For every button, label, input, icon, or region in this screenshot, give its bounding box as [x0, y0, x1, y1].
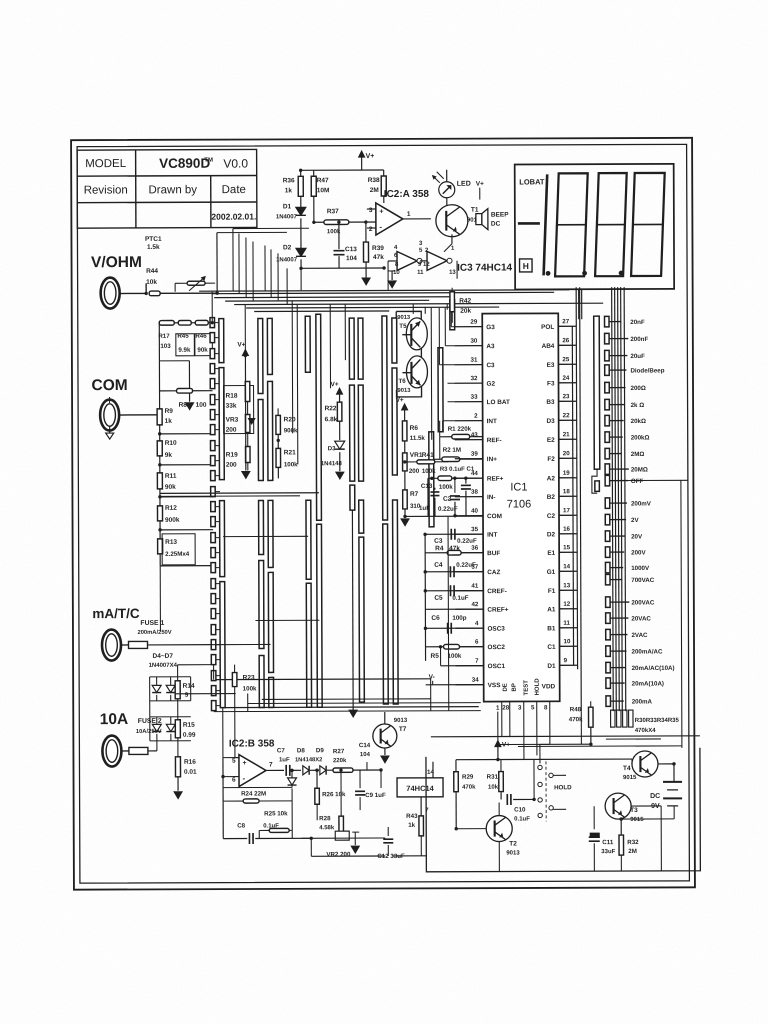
- svg-text:E2: E2: [547, 437, 555, 444]
- svg-text:33uF: 33uF: [601, 849, 615, 855]
- svg-text:36: 36: [471, 545, 478, 552]
- svg-text:BUF: BUF: [487, 550, 500, 557]
- svg-text:R43: R43: [406, 813, 418, 820]
- svg-text:R16: R16: [184, 759, 196, 766]
- svg-text:+: +: [242, 760, 246, 767]
- svg-text:0.99: 0.99: [183, 732, 196, 739]
- svg-text:200mV: 200mV: [631, 500, 652, 507]
- svg-text:Revision: Revision: [84, 184, 128, 196]
- svg-text:470kX4: 470kX4: [635, 728, 656, 734]
- svg-text:HOLD: HOLD: [554, 784, 572, 791]
- svg-text:21: 21: [563, 431, 570, 438]
- svg-text:R19: R19: [226, 452, 238, 459]
- svg-text:+: +: [379, 208, 383, 215]
- svg-text:Drawn by: Drawn by: [148, 184, 197, 196]
- svg-text:100k: 100k: [448, 653, 462, 660]
- svg-text:33k: 33k: [226, 403, 237, 410]
- svg-text:R17: R17: [158, 333, 170, 340]
- svg-text:VSS: VSS: [488, 682, 502, 689]
- svg-text:31: 31: [471, 357, 478, 364]
- svg-text:100k: 100k: [439, 484, 453, 491]
- svg-text:C2: C2: [547, 513, 556, 520]
- svg-text:R21: R21: [284, 449, 296, 456]
- svg-text:32: 32: [471, 375, 478, 382]
- svg-text:24: 24: [562, 375, 569, 382]
- svg-text:mA/T/C: mA/T/C: [92, 606, 140, 621]
- svg-text:200kΩ: 200kΩ: [631, 434, 650, 441]
- svg-text:T1: T1: [471, 207, 479, 214]
- svg-text:35: 35: [471, 526, 478, 533]
- svg-text:20VAC: 20VAC: [631, 615, 651, 622]
- svg-text:34: 34: [472, 677, 479, 684]
- svg-text:1uF: 1uF: [419, 505, 430, 512]
- svg-text:23: 23: [563, 393, 570, 400]
- svg-text:0.01: 0.01: [184, 769, 197, 776]
- svg-text:200Ω: 200Ω: [631, 385, 646, 392]
- svg-text:900k: 900k: [284, 427, 298, 434]
- svg-text:D4~D7: D4~D7: [153, 653, 174, 660]
- svg-text:3: 3: [369, 207, 373, 214]
- svg-text:R26 10k: R26 10k: [322, 791, 346, 798]
- svg-text:0.1uF: 0.1uF: [452, 595, 468, 602]
- svg-text:AB4: AB4: [542, 343, 555, 350]
- svg-text:V+: V+: [396, 397, 404, 404]
- svg-text:4: 4: [475, 620, 479, 627]
- svg-text:D2: D2: [283, 244, 292, 251]
- svg-text:IN-: IN-: [487, 494, 496, 501]
- svg-text:R14: R14: [183, 683, 195, 690]
- svg-text:R4: R4: [435, 545, 444, 552]
- svg-text:R15: R15: [183, 722, 195, 729]
- svg-text:5: 5: [232, 758, 236, 765]
- svg-text:9.9k: 9.9k: [178, 347, 191, 354]
- svg-text:R36: R36: [283, 177, 295, 184]
- svg-text:13: 13: [449, 270, 456, 276]
- svg-text:C3: C3: [486, 362, 495, 369]
- svg-text:IC2:A 358: IC2:A 358: [384, 189, 430, 200]
- svg-text:V0.0: V0.0: [223, 157, 248, 171]
- svg-text:22: 22: [563, 412, 570, 419]
- svg-text:1k: 1k: [408, 822, 415, 829]
- svg-text:R42: R42: [459, 298, 471, 305]
- svg-text:COM: COM: [91, 377, 127, 394]
- svg-text:D9: D9: [316, 747, 324, 754]
- svg-text:C9 1uF: C9 1uF: [365, 792, 386, 799]
- svg-text:VDD: VDD: [542, 683, 556, 690]
- svg-text:PTC1: PTC1: [145, 236, 162, 243]
- svg-text:REF-: REF-: [487, 437, 502, 444]
- svg-text:D3: D3: [328, 446, 336, 452]
- svg-text:C7: C7: [277, 747, 285, 754]
- svg-text:R38: R38: [368, 177, 380, 184]
- svg-text:R44: R44: [146, 268, 158, 275]
- svg-text:R37: R37: [327, 208, 339, 215]
- svg-text:103: 103: [160, 343, 171, 350]
- svg-text:REF+: REF+: [487, 476, 504, 483]
- svg-text:C2: C2: [443, 496, 452, 503]
- svg-text:D1: D1: [547, 663, 556, 670]
- svg-text:DC: DC: [650, 793, 660, 800]
- svg-text:H: H: [523, 261, 529, 271]
- svg-text:F1: F1: [548, 588, 556, 595]
- svg-text:DC: DC: [491, 221, 501, 228]
- svg-text:B2: B2: [547, 494, 556, 501]
- svg-text:9013: 9013: [394, 718, 408, 724]
- svg-text:V/OHM: V/OHM: [91, 254, 142, 271]
- svg-text:7: 7: [269, 761, 273, 768]
- svg-text:19: 19: [563, 470, 570, 477]
- svg-text:25: 25: [562, 356, 569, 363]
- svg-text:900k: 900k: [165, 517, 180, 524]
- svg-text:R48: R48: [570, 706, 582, 713]
- svg-text:G2: G2: [486, 381, 495, 388]
- svg-text:90k: 90k: [165, 484, 176, 491]
- svg-text:100k: 100k: [422, 468, 436, 475]
- svg-text:8: 8: [544, 704, 548, 711]
- svg-text:6.8k: 6.8k: [325, 416, 338, 423]
- svg-text:1N4007: 1N4007: [276, 257, 298, 263]
- svg-text:VR2 200: VR2 200: [326, 851, 351, 858]
- svg-text:7: 7: [475, 658, 479, 665]
- svg-text:38: 38: [471, 489, 478, 496]
- svg-text:C5: C5: [434, 595, 443, 602]
- svg-text:R11: R11: [165, 473, 177, 480]
- svg-text:R20: R20: [284, 416, 296, 423]
- svg-text:COM: COM: [487, 513, 502, 520]
- svg-text:47k: 47k: [373, 254, 384, 261]
- svg-text:T3: T3: [630, 807, 638, 814]
- svg-text:20mA/AC(10A): 20mA/AC(10A): [632, 665, 675, 672]
- svg-text:200V: 200V: [631, 549, 646, 556]
- svg-text:T4: T4: [623, 765, 631, 772]
- svg-text:11: 11: [417, 270, 424, 276]
- svg-text:220k: 220k: [333, 758, 347, 764]
- svg-text:30: 30: [470, 338, 477, 345]
- svg-text:R25 10k: R25 10k: [264, 810, 288, 817]
- svg-text:A1: A1: [547, 606, 556, 613]
- svg-text:9013: 9013: [397, 315, 411, 321]
- svg-text:2002.02.01.: 2002.02.01.: [211, 211, 256, 221]
- svg-text:12: 12: [423, 262, 430, 268]
- svg-text:1000V: 1000V: [631, 565, 650, 572]
- svg-text:39: 39: [471, 451, 478, 458]
- svg-text:1: 1: [496, 705, 500, 712]
- svg-text:Date: Date: [222, 184, 246, 196]
- svg-text:0.22uF: 0.22uF: [457, 538, 477, 545]
- svg-text:104: 104: [360, 752, 371, 758]
- svg-text:Diode/Beep: Diode/Beep: [630, 367, 664, 374]
- svg-text:15: 15: [563, 544, 570, 551]
- svg-text:LED: LED: [457, 181, 471, 188]
- svg-text:0.1uF: 0.1uF: [514, 816, 530, 822]
- svg-text:9k: 9k: [165, 452, 173, 459]
- svg-text:200mA/AC: 200mA/AC: [632, 648, 664, 655]
- svg-text:2k Ω: 2k Ω: [631, 402, 645, 409]
- svg-text:4.58k: 4.58k: [319, 825, 335, 831]
- svg-text:R31: R31: [487, 774, 499, 781]
- svg-text:R8: R8: [179, 402, 188, 409]
- svg-text:LO BAT: LO BAT: [487, 399, 510, 406]
- svg-text:47k: 47k: [449, 545, 460, 552]
- svg-text:E3: E3: [547, 362, 555, 369]
- svg-text:R41: R41: [422, 452, 434, 459]
- svg-text:11.5k: 11.5k: [410, 435, 426, 442]
- svg-text:42: 42: [471, 601, 478, 608]
- svg-text:41: 41: [471, 583, 478, 590]
- svg-text:1: 1: [407, 211, 411, 218]
- svg-text:TEST: TEST: [524, 680, 530, 696]
- svg-text:2M: 2M: [370, 187, 379, 194]
- svg-text:TM: TM: [204, 158, 213, 164]
- svg-text:R1 220k: R1 220k: [448, 426, 472, 433]
- svg-text:MODEL: MODEL: [85, 158, 127, 170]
- svg-text:10k: 10k: [488, 785, 499, 791]
- svg-text:-: -: [379, 223, 382, 232]
- svg-text:20: 20: [563, 450, 570, 457]
- svg-text:9013: 9013: [506, 850, 520, 856]
- svg-text:HOLD: HOLD: [535, 678, 541, 696]
- svg-text:200VAC: 200VAC: [631, 599, 654, 606]
- svg-text:R32: R32: [627, 839, 639, 846]
- svg-text:A2: A2: [547, 475, 556, 482]
- svg-text:33: 33: [471, 394, 478, 401]
- svg-text:1N4007: 1N4007: [276, 214, 298, 220]
- svg-text:INT: INT: [487, 418, 497, 425]
- svg-text:C3: C3: [434, 538, 443, 545]
- svg-text:1.5k: 1.5k: [147, 244, 160, 251]
- svg-text:R47: R47: [317, 177, 329, 184]
- svg-text:R24 22M: R24 22M: [241, 790, 266, 797]
- svg-text:29: 29: [470, 319, 477, 326]
- svg-text:2VAC: 2VAC: [631, 632, 648, 639]
- svg-text:100: 100: [196, 402, 207, 409]
- svg-text:R10: R10: [165, 440, 177, 447]
- svg-text:R22: R22: [325, 405, 337, 412]
- svg-text:T5: T5: [399, 323, 407, 330]
- svg-text:R13: R13: [165, 539, 177, 546]
- svg-text:V-: V-: [429, 674, 435, 681]
- svg-text:R39: R39: [372, 245, 384, 252]
- svg-text:VR3: VR3: [226, 417, 239, 424]
- svg-text:18: 18: [563, 488, 570, 495]
- svg-text:10M: 10M: [317, 187, 330, 194]
- svg-text:20mA(10A): 20mA(10A): [632, 680, 664, 687]
- svg-text:LOBAT: LOBAT: [519, 177, 545, 186]
- svg-text:IC2:B 358: IC2:B 358: [229, 738, 275, 749]
- svg-text:C6: C6: [431, 615, 440, 622]
- svg-text:R27: R27: [333, 748, 345, 755]
- svg-text:1N4148X2: 1N4148X2: [295, 757, 322, 763]
- svg-text:R7: R7: [410, 491, 419, 498]
- svg-text:470k: 470k: [462, 785, 476, 791]
- svg-text:OSC1: OSC1: [488, 663, 506, 670]
- svg-text:IC3 74HC14: IC3 74HC14: [457, 263, 513, 274]
- svg-text:C11: C11: [602, 839, 614, 846]
- svg-text:0.22uF: 0.22uF: [456, 562, 476, 569]
- svg-text:26: 26: [562, 337, 569, 344]
- svg-text:13: 13: [563, 582, 570, 589]
- svg-text:R3 0.1uF C1: R3 0.1uF C1: [440, 467, 475, 473]
- svg-text:74HC14: 74HC14: [406, 784, 434, 793]
- svg-text:T2: T2: [509, 840, 517, 847]
- svg-text:IC1: IC1: [510, 481, 527, 493]
- svg-text:100k: 100k: [284, 461, 298, 468]
- svg-text:V+: V+: [330, 381, 338, 388]
- svg-text:10k: 10k: [146, 279, 157, 286]
- svg-text:6: 6: [232, 777, 236, 784]
- svg-text:F3: F3: [547, 380, 555, 387]
- svg-text:2.25Mx4: 2.25Mx4: [165, 551, 190, 558]
- svg-text:POL: POL: [541, 324, 554, 331]
- svg-text:9: 9: [564, 657, 568, 664]
- svg-text:200: 200: [409, 468, 420, 475]
- svg-text:200: 200: [226, 462, 237, 469]
- svg-text:104: 104: [346, 255, 357, 262]
- svg-text:17: 17: [563, 507, 570, 514]
- svg-text:20nF: 20nF: [630, 319, 645, 326]
- svg-text:5: 5: [531, 704, 535, 711]
- svg-text:BP: BP: [512, 683, 518, 691]
- svg-text:9: 9: [185, 692, 189, 699]
- svg-text:11: 11: [563, 620, 570, 627]
- svg-text:A3: A3: [486, 343, 495, 350]
- svg-text:10: 10: [563, 638, 570, 645]
- svg-text:C4: C4: [434, 562, 443, 569]
- svg-text:28: 28: [502, 705, 509, 712]
- svg-text:C10: C10: [514, 806, 526, 813]
- svg-text:700VAC: 700VAC: [631, 577, 654, 584]
- svg-text:10A: 10A: [100, 711, 129, 728]
- svg-text:R12: R12: [165, 505, 177, 512]
- svg-text:1k: 1k: [285, 187, 293, 194]
- svg-text:9013: 9013: [398, 388, 412, 394]
- svg-text:DE: DE: [503, 683, 509, 691]
- svg-text:R18: R18: [226, 393, 238, 400]
- svg-text:44: 44: [471, 470, 478, 477]
- svg-text:F2: F2: [547, 456, 555, 463]
- svg-text:100p: 100p: [452, 615, 466, 622]
- svg-text:14: 14: [563, 563, 570, 570]
- svg-text:200mA/250V: 200mA/250V: [137, 630, 171, 636]
- svg-text:IN+: IN+: [487, 456, 497, 463]
- svg-text:9015: 9015: [623, 775, 637, 781]
- svg-text:BEEP: BEEP: [491, 212, 509, 219]
- svg-text:0.1uF: 0.1uF: [263, 823, 279, 829]
- svg-text:200: 200: [226, 427, 237, 434]
- svg-text:OSC3: OSC3: [487, 626, 505, 633]
- svg-text:V+: V+: [366, 153, 375, 160]
- svg-text:B1: B1: [547, 625, 556, 632]
- svg-text:R30R33R34R35: R30R33R34R35: [635, 718, 680, 724]
- svg-text:90k: 90k: [197, 347, 208, 354]
- svg-text:-: -: [243, 774, 246, 783]
- svg-text:1k: 1k: [165, 418, 173, 425]
- svg-text:V+: V+: [476, 181, 484, 188]
- svg-text:100k: 100k: [243, 685, 257, 692]
- svg-text:C8: C8: [237, 823, 245, 830]
- svg-text:20MΩ: 20MΩ: [631, 466, 648, 473]
- svg-text:43: 43: [471, 432, 478, 439]
- svg-text:D1: D1: [283, 203, 292, 210]
- svg-text:C13: C13: [345, 246, 357, 253]
- svg-text:R28: R28: [319, 815, 331, 822]
- svg-text:OSC2: OSC2: [488, 644, 506, 651]
- svg-text:9015: 9015: [630, 817, 644, 823]
- svg-text:E1: E1: [547, 550, 555, 557]
- svg-text:R29: R29: [462, 774, 474, 781]
- svg-text:9V: 9V: [651, 803, 660, 810]
- svg-text:2M: 2M: [628, 848, 637, 855]
- svg-text:D8: D8: [297, 747, 305, 754]
- svg-text:20kΩ: 20kΩ: [631, 418, 646, 425]
- svg-text:20V: 20V: [631, 534, 643, 541]
- svg-text:R2 1M: R2 1M: [443, 447, 461, 454]
- svg-text:OFF: OFF: [631, 478, 644, 485]
- svg-text:6: 6: [475, 639, 479, 646]
- svg-text:20uF: 20uF: [630, 353, 645, 360]
- svg-text:VC890D: VC890D: [159, 156, 210, 171]
- svg-text:2V: 2V: [631, 517, 639, 524]
- svg-text:D2: D2: [547, 531, 556, 538]
- svg-text:3: 3: [518, 704, 522, 711]
- svg-text:C13: C13: [421, 483, 433, 490]
- svg-text:12: 12: [563, 601, 570, 608]
- svg-text:16: 16: [563, 526, 570, 533]
- svg-text:C1: C1: [547, 644, 556, 651]
- svg-text:V+: V+: [237, 342, 245, 349]
- svg-text:CAZ: CAZ: [487, 569, 500, 576]
- svg-text:27: 27: [562, 318, 569, 325]
- svg-text:CREF+: CREF+: [487, 607, 508, 614]
- svg-text:R9: R9: [165, 408, 174, 415]
- svg-text:R5: R5: [431, 653, 440, 660]
- svg-text:2MΩ: 2MΩ: [631, 451, 645, 458]
- svg-text:R6: R6: [410, 425, 419, 432]
- svg-text:200nF: 200nF: [630, 336, 648, 343]
- svg-text:200mA: 200mA: [632, 698, 653, 705]
- svg-text:G3: G3: [486, 324, 495, 331]
- svg-text:40: 40: [471, 508, 478, 515]
- svg-text:2: 2: [474, 413, 478, 420]
- svg-text:B3: B3: [546, 399, 555, 406]
- svg-text:G1: G1: [547, 569, 556, 576]
- svg-text:1uF: 1uF: [279, 757, 290, 763]
- svg-text:C14: C14: [359, 742, 371, 749]
- svg-text:20k: 20k: [460, 308, 471, 315]
- svg-text:7106: 7106: [507, 498, 532, 510]
- svg-text:T7: T7: [399, 726, 407, 733]
- svg-text:D3: D3: [546, 418, 555, 425]
- svg-text:CREF-: CREF-: [487, 588, 507, 595]
- svg-text:2: 2: [369, 226, 373, 233]
- svg-text:R23: R23: [243, 674, 255, 681]
- svg-text:INT: INT: [487, 532, 497, 539]
- svg-text:T6: T6: [398, 378, 406, 385]
- svg-text:1N4007X4: 1N4007X4: [149, 663, 178, 669]
